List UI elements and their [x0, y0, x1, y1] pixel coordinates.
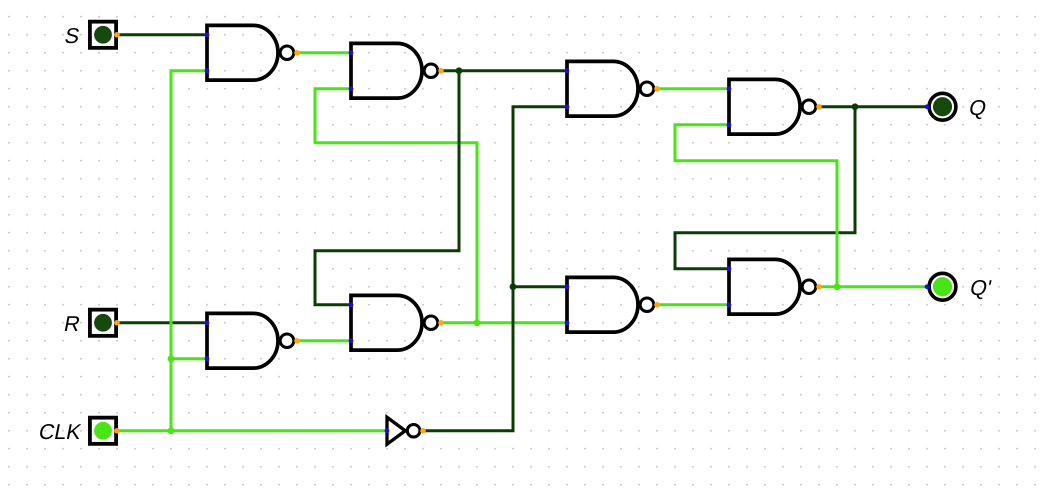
svg-text:CLK: CLK — [37, 419, 84, 444]
